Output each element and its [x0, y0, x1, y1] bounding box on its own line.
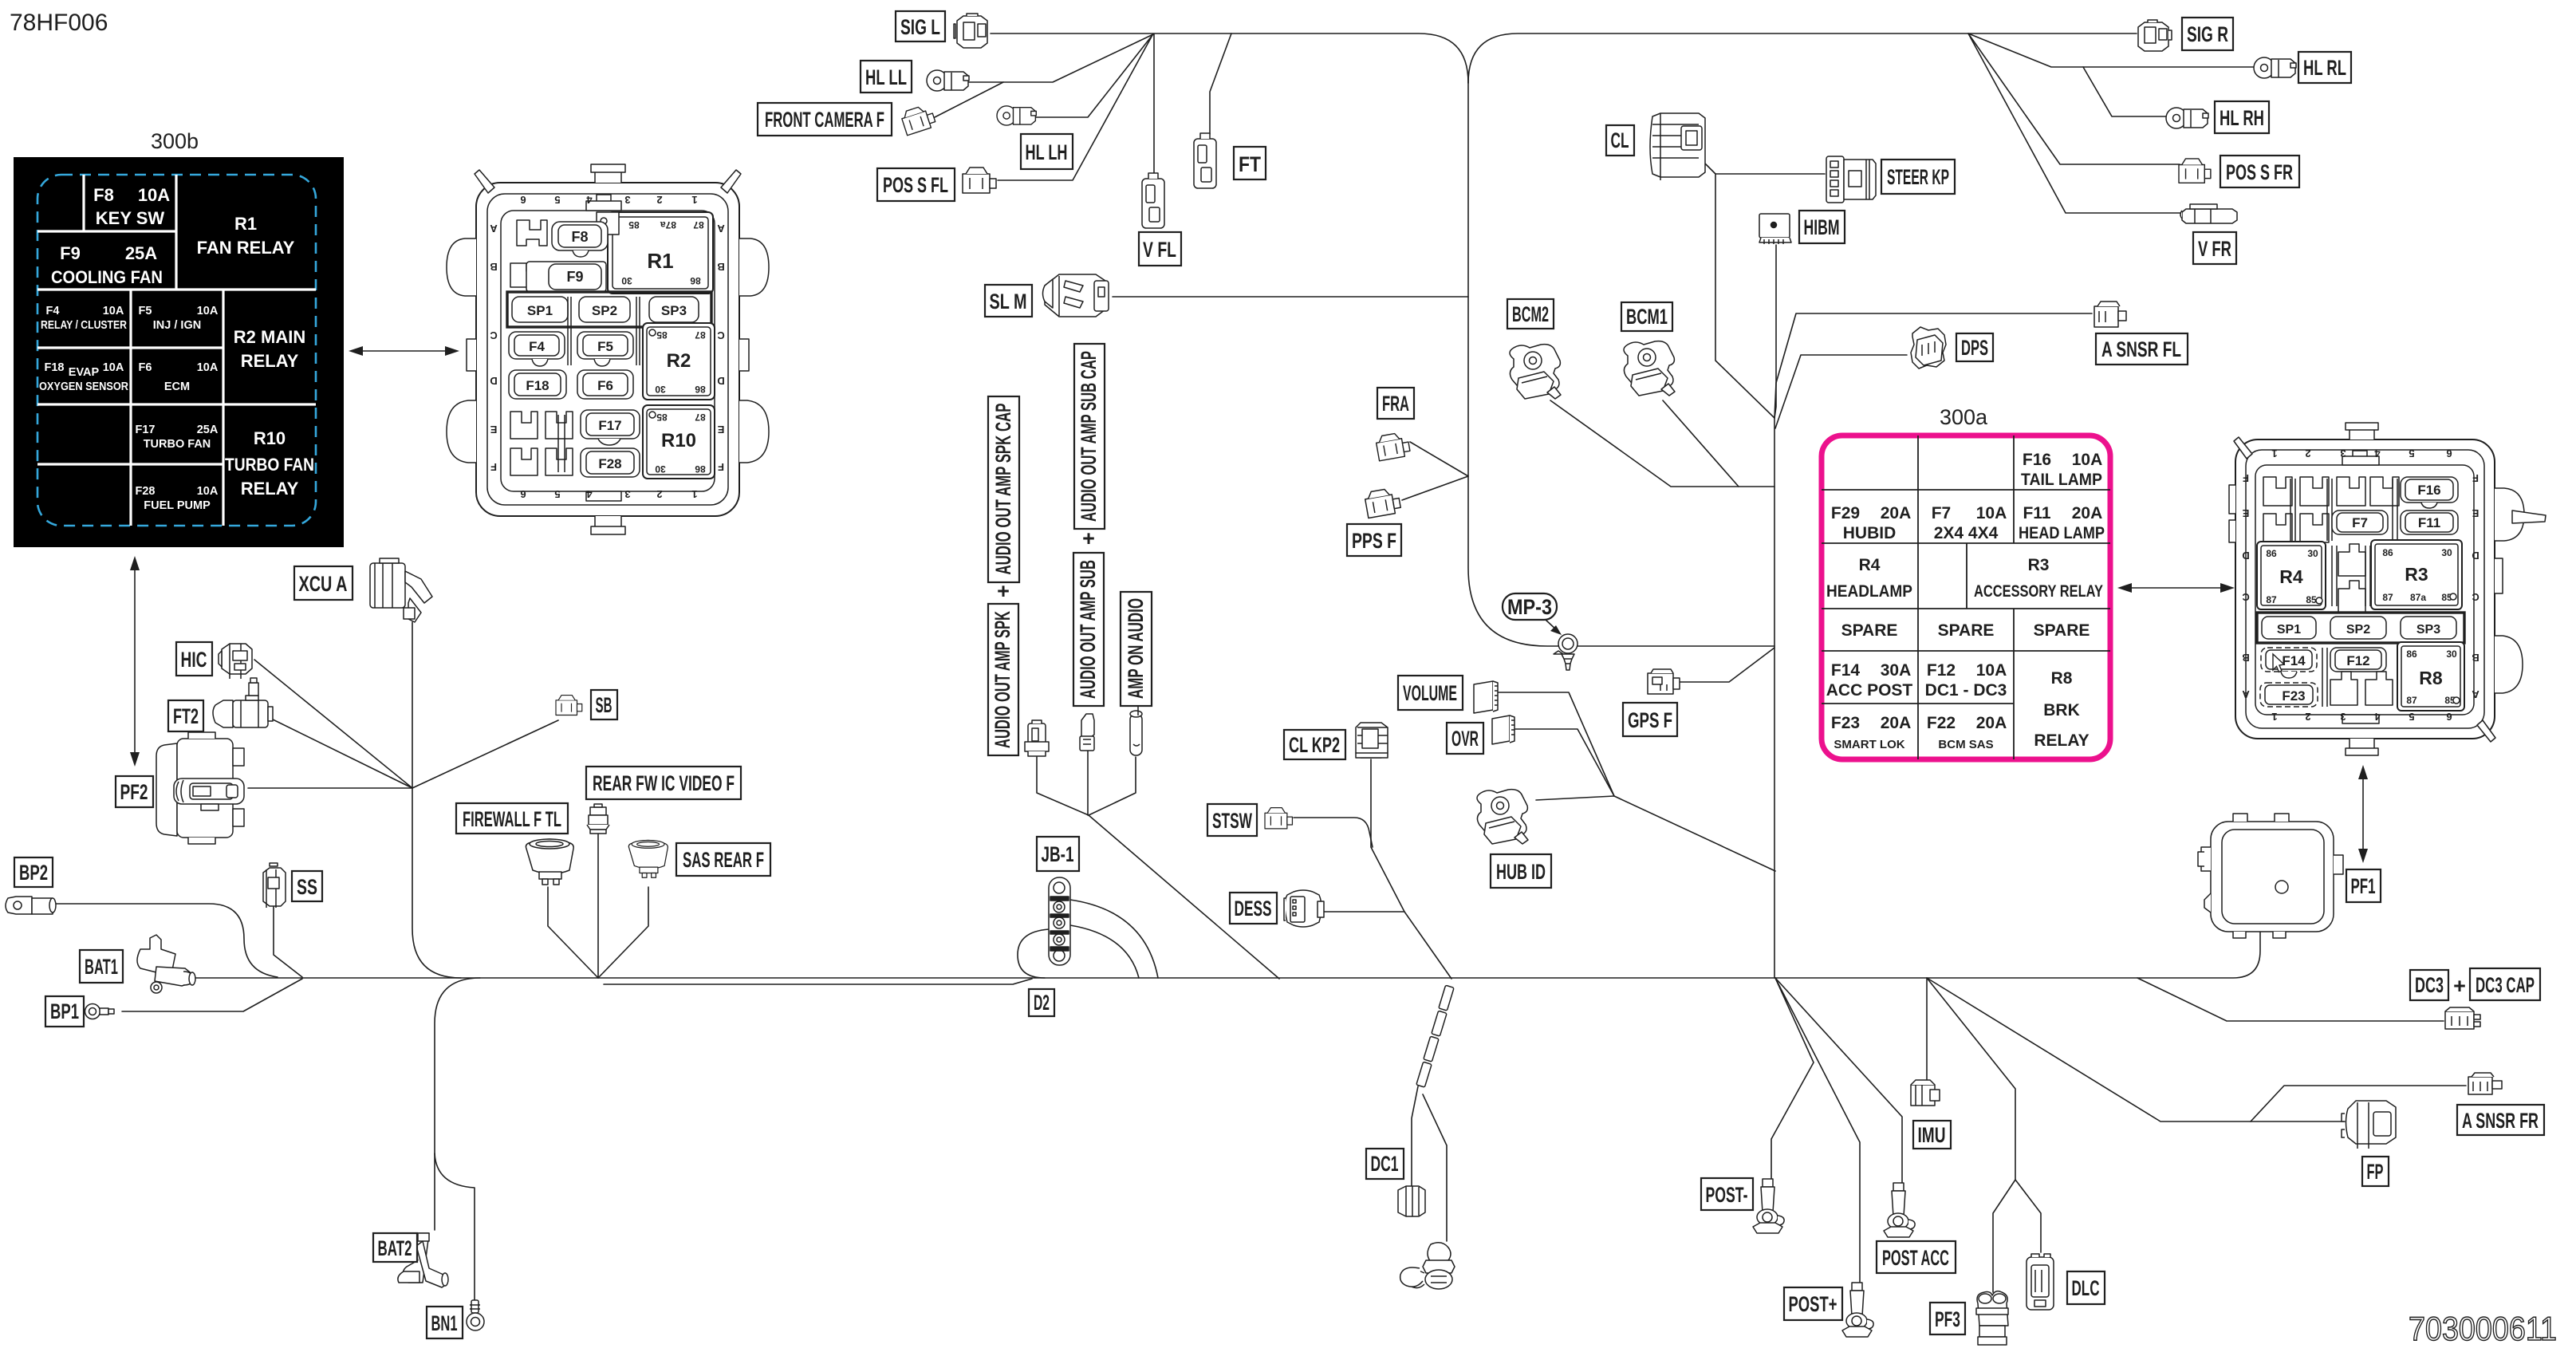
connector FIREWALL F TL [526, 839, 573, 885]
wire PPS F [1402, 476, 1468, 500]
svg-text:BAT1: BAT1 [85, 955, 118, 979]
label CL [1606, 125, 1634, 156]
svg-text:A SNSR FR: A SNSR FR [2462, 1109, 2539, 1133]
fuse F23 slot [2260, 683, 2318, 707]
connector BP1 [85, 1004, 115, 1019]
svg-text:TURBO FAN: TURBO FAN [144, 438, 211, 451]
wire FT [1210, 34, 1231, 134]
svg-text:A: A [717, 223, 725, 235]
svg-text:+: + [1082, 526, 1095, 550]
label XCU A [294, 566, 353, 600]
svg-text:10A: 10A [103, 361, 124, 374]
fuse box 300b left ears [447, 238, 476, 296]
label SB [591, 690, 617, 719]
wire V FL [1153, 34, 1155, 173]
svg-text:78HF006: 78HF006 [10, 10, 108, 36]
svg-text:BAT2: BAT2 [378, 1236, 412, 1260]
svg-text:OXYGEN SENSOR: OXYGEN SENSOR [39, 380, 128, 393]
svg-text:703000611: 703000611 [2409, 1310, 2557, 1347]
wire POST ACC [1775, 978, 1902, 1185]
svg-text:87: 87 [2406, 695, 2417, 706]
fuse F28 slot [581, 448, 640, 477]
fuse box 300a top tab [2350, 428, 2374, 440]
label AUDIO OUT AMP SPK CAP [988, 396, 1019, 582]
svg-text:ACCESSORY RELAY: ACCESSORY RELAY [1974, 582, 2103, 601]
fuse F9 slot [510, 263, 542, 287]
svg-text:BP2: BP2 [19, 861, 48, 885]
wire BP1 [122, 979, 302, 1011]
label BN1 [427, 1307, 463, 1338]
svg-text:MP-3: MP-3 [1507, 595, 1552, 619]
label POST- [1701, 1178, 1753, 1210]
wire V FR [1968, 34, 2182, 213]
svg-text:25A: 25A [125, 243, 157, 263]
svg-text:SPARE: SPARE [1938, 621, 1995, 640]
svg-text:B: B [490, 261, 497, 273]
svg-text:5: 5 [2409, 447, 2414, 459]
wire HL RL [1968, 34, 2254, 67]
wire REAR FW IC VIDEO F [597, 834, 599, 978]
wire GPS F [1677, 648, 1774, 682]
svg-text:25A: 25A [197, 424, 219, 436]
svg-text:F29: F29 [1831, 504, 1860, 522]
svg-text:30: 30 [2446, 648, 2457, 660]
svg-text:87: 87 [695, 329, 706, 341]
wire POST+ [1775, 978, 1860, 1284]
label REAR FW IC VIDEO F [586, 767, 741, 799]
fuse box 300b top tab [595, 170, 621, 183]
label DC3 CAP [2470, 968, 2540, 1000]
svg-text:TAIL LAMP: TAIL LAMP [2021, 471, 2102, 489]
connector CL KP2 [1356, 723, 1388, 758]
connector HL RH [2166, 108, 2208, 128]
wire POST- [1771, 978, 1814, 1181]
svg-text:F28: F28 [136, 485, 156, 498]
svg-text:COOLING FAN: COOLING FAN [51, 267, 163, 287]
svg-text:SP3: SP3 [661, 303, 687, 318]
connector IMU [1911, 1080, 1940, 1106]
svg-text:F28: F28 [598, 456, 621, 471]
svg-text:SMART LOK: SMART LOK [1834, 738, 1904, 751]
label D2 [1029, 989, 1054, 1016]
svg-text:6: 6 [2446, 447, 2452, 459]
svg-text:1: 1 [2271, 711, 2277, 723]
label FRA [1377, 388, 1414, 419]
wire STEER KP [1715, 173, 1825, 175]
svg-text:87a: 87a [660, 219, 676, 231]
arrow between 300a and fuse box [2117, 583, 2235, 593]
label CL KP2 [1284, 730, 1345, 759]
middle castle slots [2338, 544, 2365, 613]
svg-text:B: B [2472, 652, 2479, 664]
svg-text:86: 86 [695, 463, 706, 475]
svg-text:3: 3 [2340, 711, 2346, 723]
wire spine lower strand [604, 979, 1032, 984]
svg-text:F11: F11 [2418, 515, 2440, 530]
svg-text:KEY SW: KEY SW [96, 208, 165, 228]
svg-text:F23: F23 [1831, 714, 1860, 732]
svg-text:E: E [2242, 507, 2249, 519]
label VOLUME [1398, 676, 1463, 710]
wire audio branch [1089, 815, 1279, 979]
svg-text:RELAY: RELAY [2034, 731, 2089, 750]
connector POS S FR [2179, 159, 2211, 183]
svg-text:3: 3 [2340, 447, 2346, 459]
svg-text:FIREWALL F TL: FIREWALL F TL [463, 807, 561, 831]
label BAT1 [80, 950, 123, 983]
svg-text:F5: F5 [597, 339, 613, 354]
svg-text:HUBID: HUBID [1843, 524, 1897, 542]
label POST+ [1784, 1287, 1842, 1320]
label AUDIO OUT AMP SUB CAP [1074, 344, 1105, 529]
wire DC1 [1412, 1086, 1418, 1186]
bottom castle slots [2330, 672, 2393, 705]
connector DESS [1284, 890, 1324, 927]
svg-text:AUDIO OUT AMP SUB: AUDIO OUT AMP SUB [1076, 560, 1100, 699]
svg-text:B: B [717, 261, 724, 273]
terminal POST- [1753, 1179, 1784, 1233]
wire FRONT CAMERA F [933, 82, 1003, 118]
svg-text:E: E [717, 424, 724, 436]
svg-text:SL M: SL M [990, 290, 1027, 313]
label HL RL [2298, 52, 2351, 83]
label POS S FL [877, 168, 955, 201]
connector HL LL [927, 70, 969, 91]
fuse box 300b corner spikes [475, 170, 494, 193]
label POS S FR [2220, 156, 2299, 187]
svg-text:5: 5 [554, 194, 560, 206]
connector STEER KP [1826, 156, 1876, 203]
svg-text:STSW: STSW [1212, 809, 1252, 833]
svg-text:10A: 10A [103, 305, 124, 317]
svg-text:F4: F4 [46, 305, 60, 317]
svg-text:300a: 300a [1940, 405, 1988, 429]
svg-text:F16: F16 [2023, 451, 2051, 469]
wire BAT2 branch [435, 978, 480, 1230]
conduit D2 strap [1416, 985, 1454, 1087]
wire A SNSR FR [2251, 1086, 2466, 1121]
wire HIBM [1774, 245, 1776, 418]
connector HL RL [2254, 57, 2296, 78]
svg-text:87: 87 [2266, 594, 2277, 605]
wire FP [1927, 978, 2345, 1121]
svg-text:SIG R: SIG R [2187, 22, 2228, 46]
relay R1 slot [597, 212, 713, 294]
svg-text:F12: F12 [2346, 653, 2369, 668]
connector AUDIO SUB plug [1080, 714, 1094, 751]
junction block JB-1 [1049, 877, 1070, 965]
arrow MP-3 pointer [1546, 620, 1557, 630]
fuse F18 slot [509, 370, 566, 399]
svg-text:20A: 20A [1881, 714, 1912, 732]
label HL RH [2215, 101, 2269, 133]
svg-text:2: 2 [656, 488, 662, 500]
svg-text:SP1: SP1 [527, 303, 553, 318]
label FT [1234, 147, 1266, 179]
label OVR [1447, 723, 1483, 754]
svg-text:5: 5 [554, 488, 560, 500]
fuse F4 slot [509, 332, 565, 359]
label IMU [1913, 1121, 1951, 1149]
connector XCU A [370, 558, 432, 622]
svg-text:JB-1: JB-1 [1042, 842, 1074, 866]
label SS [292, 871, 322, 901]
label DPS [1956, 333, 1993, 361]
label PF1 [2346, 869, 2381, 902]
fuse box 300a row letters [2242, 447, 2479, 723]
label HUB ID [1491, 854, 1551, 888]
label PF3 [1930, 1303, 1965, 1334]
svg-text:DC3: DC3 [2415, 973, 2444, 997]
label SIG R [2182, 18, 2233, 50]
svg-text:PF1: PF1 [2351, 874, 2376, 898]
svg-text:DPS: DPS [1961, 336, 1988, 360]
svg-text:1: 1 [2271, 447, 2277, 459]
connector VOLUME [1474, 681, 1498, 713]
fuse box 300a corner spikes [2234, 437, 2252, 459]
svg-text:HL LH: HL LH [1026, 140, 1068, 164]
svg-text:FP: FP [2367, 1160, 2384, 1184]
svg-text:A: A [490, 223, 498, 235]
svg-text:F: F [2472, 472, 2479, 484]
connector SS [263, 863, 286, 908]
svg-text:85: 85 [2306, 594, 2317, 605]
svg-text:F6: F6 [597, 378, 613, 393]
svg-text:C: C [717, 329, 725, 341]
svg-text:A: A [2242, 688, 2250, 700]
svg-text:POS S FL: POS S FL [883, 173, 948, 197]
connector PF3 [1976, 1291, 2008, 1345]
connector SB [556, 696, 582, 715]
svg-text:AUDIO OUT AMP SPK: AUDIO OUT AMP SPK [991, 611, 1014, 748]
svg-text:BCM SAS: BCM SAS [1938, 738, 1993, 751]
svg-text:A: A [2472, 688, 2479, 700]
wire JB-1 loop left [1018, 929, 1049, 978]
svg-text:R8: R8 [2051, 669, 2073, 688]
wire AUDIO SPK drop [1037, 757, 1089, 815]
wire trunk B vertical [1774, 416, 1775, 978]
connector HIBM [1759, 214, 1791, 244]
svg-text:BP1: BP1 [50, 999, 79, 1023]
fuse box 300b right ears [739, 238, 769, 296]
svg-text:AMP ON AUDIO: AMP ON AUDIO [1124, 598, 1148, 699]
svg-text:HL LL: HL LL [865, 65, 907, 89]
svg-text:D: D [490, 375, 497, 387]
svg-text:2: 2 [656, 194, 662, 206]
svg-text:F14: F14 [1831, 661, 1861, 680]
svg-text:R8: R8 [2419, 668, 2443, 688]
svg-text:87: 87 [2382, 592, 2393, 603]
svg-text:D: D [2472, 550, 2479, 562]
svg-text:DLC: DLC [2072, 1276, 2100, 1300]
fuse box 300b bottom tab [595, 516, 621, 529]
connector HIC [219, 644, 252, 679]
wire PF2 [248, 787, 412, 789]
relay R10 slot [643, 405, 715, 479]
svg-text:F8: F8 [93, 185, 114, 205]
arrow between 300b and fuse box [349, 346, 459, 356]
svg-text:RELAY / CLUSTER: RELAY / CLUSTER [41, 319, 127, 332]
svg-text:HIBM: HIBM [1804, 215, 1840, 239]
label A SNSR FR [2457, 1105, 2544, 1135]
svg-text:F17: F17 [598, 418, 621, 433]
wire DC cap [1423, 1094, 1447, 1241]
wire JB-1 loop right inner [1070, 925, 1139, 978]
svg-text:R3: R3 [2405, 564, 2428, 585]
svg-text:10A: 10A [1976, 661, 2007, 680]
svg-text:300b: 300b [151, 129, 199, 153]
svg-text:BRK: BRK [2043, 701, 2080, 719]
svg-text:HIC: HIC [181, 648, 207, 672]
bottom castle slots [510, 412, 538, 475]
connector V FR [2180, 204, 2237, 223]
svg-text:4: 4 [2374, 711, 2381, 723]
svg-text:BCM1: BCM1 [1626, 305, 1668, 329]
svg-text:1: 1 [691, 488, 697, 500]
fuse F8 slot [517, 220, 547, 246]
arrow between 300b and PF2 [130, 556, 140, 767]
wire POS S FL [998, 35, 1152, 180]
svg-text:F8: F8 [571, 229, 588, 245]
fuse F6 slot [577, 370, 633, 399]
wire BCM1 [1663, 400, 1739, 487]
relay R3 slot [2371, 540, 2462, 609]
label SAS REAR F [676, 843, 770, 876]
svg-text:SP2: SP2 [592, 303, 617, 318]
connector HUB ID [1477, 790, 1528, 844]
fuse box 300a bottom tab [2350, 739, 2374, 750]
label HL LH [1021, 134, 1073, 169]
label FIREWALL F TL [456, 803, 568, 834]
label FT2 [168, 700, 203, 731]
svg-text:IMU: IMU [1918, 1123, 1946, 1147]
connector BP2 [6, 897, 56, 914]
svg-text:SS: SS [297, 875, 317, 899]
svg-text:C: C [2242, 591, 2250, 603]
label HIBM [1799, 211, 1845, 243]
connector FT2 [213, 678, 273, 727]
connector DC1 [1398, 1186, 1425, 1216]
label HIC [176, 642, 212, 676]
label A SNSR FL [2096, 333, 2188, 365]
svg-text:87: 87 [693, 219, 704, 231]
svg-text:R10: R10 [254, 428, 286, 448]
relay R8 slot [2397, 642, 2464, 711]
wire IMU [1926, 978, 1928, 1081]
connector POS S FL [963, 168, 996, 193]
wire SAS REAR F [598, 887, 648, 978]
connector AMP ON AUDIO plug [1130, 704, 1142, 755]
connector SAS REAR F [628, 840, 668, 877]
label JB-1 [1037, 837, 1079, 871]
clip MP-3 [1554, 634, 1578, 670]
label BCM2 [1507, 299, 1554, 329]
label BAT2 [373, 1233, 417, 1262]
svg-text:20A: 20A [2072, 504, 2103, 522]
svg-text:F: F [2243, 472, 2249, 484]
label BP2 [14, 857, 53, 887]
fuse box 300a right ears [2495, 488, 2524, 541]
wire top harness line [991, 34, 1468, 83]
label FP [2362, 1157, 2389, 1186]
svg-text:86: 86 [2382, 547, 2393, 558]
fuse F12 slot [2330, 648, 2386, 672]
svg-text:FUEL PUMP: FUEL PUMP [144, 499, 211, 512]
arrow between fuse box and PF1 [2358, 765, 2368, 863]
spare row SP1 SP2 SP3 [507, 292, 711, 327]
connector HL LH [997, 106, 1036, 125]
svg-text:86: 86 [2266, 548, 2277, 559]
svg-text:FRONT CAMERA F: FRONT CAMERA F [765, 108, 884, 132]
svg-text:FRA: FRA [1382, 392, 1409, 416]
svg-text:4: 4 [586, 488, 593, 500]
connector A SNSR FR [2468, 1073, 2502, 1094]
cursor [2273, 654, 2284, 672]
spare row SP1 SP2 SP3 [2257, 613, 2464, 643]
svg-text:AUDIO OUT AMP SUB CAP: AUDIO OUT AMP SUB CAP [1077, 351, 1101, 522]
svg-text:AUDIO OUT AMP SPK CAP: AUDIO OUT AMP SPK CAP [991, 404, 1015, 575]
svg-text:BCM2: BCM2 [1512, 302, 1549, 326]
svg-text:F16: F16 [2417, 483, 2440, 498]
svg-text:3: 3 [624, 488, 630, 500]
connector DPS [1911, 327, 1946, 369]
svg-text:POS S FR: POS S FR [2226, 160, 2293, 184]
connector DC3 [2445, 1007, 2480, 1029]
wire FT2 [268, 717, 412, 788]
svg-text:RELAY: RELAY [241, 479, 299, 499]
wire CL [1705, 164, 1774, 418]
svg-text:2: 2 [2305, 711, 2310, 723]
svg-text:SP1: SP1 [2277, 623, 2301, 637]
svg-text:DC1: DC1 [1371, 1152, 1399, 1176]
wire DLC [2015, 1180, 2041, 1252]
wire STSW [1294, 818, 1373, 847]
svg-text:ECM: ECM [164, 380, 190, 393]
svg-text:C: C [2472, 591, 2479, 603]
svg-text:SIG L: SIG L [900, 15, 940, 39]
label PF2 [116, 776, 153, 807]
svg-text:85: 85 [656, 412, 668, 423]
svg-text:POST+: POST+ [1789, 1292, 1837, 1316]
connector DLC [2027, 1254, 2054, 1310]
svg-text:F17: F17 [136, 424, 156, 436]
svg-text:SB: SB [596, 693, 612, 717]
connector A SNSR FL [2094, 302, 2126, 327]
connector BCM1 [1624, 341, 1675, 396]
svg-text:F7: F7 [1932, 504, 1952, 522]
wire PF3 DLC branch [1927, 978, 2015, 1292]
wire trunk A vertical [1468, 80, 1774, 646]
connector AUDIO SPK plug [1025, 720, 1049, 756]
fuse F7 slot [2332, 510, 2388, 534]
fuse F17 slot [581, 410, 640, 439]
svg-text:D: D [717, 375, 724, 387]
wire SS [274, 907, 302, 977]
relay R2 slot [643, 323, 715, 400]
svg-text:POST ACC: POST ACC [1882, 1246, 1949, 1270]
connector BAT2 [398, 1233, 448, 1287]
connector SL M [1043, 274, 1109, 317]
wire HIC [254, 660, 412, 788]
svg-text:2X4 4X4: 2X4 4X4 [1934, 524, 1999, 542]
svg-text:F7: F7 [2352, 515, 2368, 530]
svg-text:6: 6 [520, 488, 526, 500]
wire OVR [1515, 729, 1614, 796]
wire top harness right [1468, 34, 2137, 83]
connector SIG R [2138, 20, 2172, 51]
svg-text:STEER KP: STEER KP [1887, 165, 1949, 189]
svg-text:20A: 20A [1881, 504, 1912, 522]
